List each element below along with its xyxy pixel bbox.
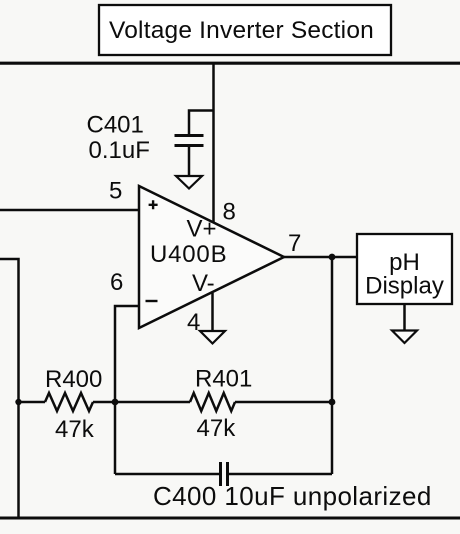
wire pin 8 supply drop	[212, 63, 215, 222]
svg-text:Display: Display	[365, 273, 444, 300]
title box: Voltage Inverter Section	[99, 5, 391, 55]
wire left input corner	[0, 259, 19, 518]
ground (pin 4)	[200, 331, 225, 344]
wire pH display ground lead	[403, 304, 406, 330]
ground (pH display)	[392, 331, 417, 344]
plus input mark	[149, 200, 158, 209]
op-amp U400B	[139, 186, 284, 328]
svg-text:U400B: U400B	[150, 241, 227, 268]
svg-text:6: 6	[110, 269, 123, 296]
svg-text:5: 5	[109, 178, 122, 205]
svg-text:47k: 47k	[55, 416, 95, 443]
minus input mark	[146, 300, 158, 302]
svg-text:0.1uF: 0.1uF	[89, 137, 150, 164]
svg-text:Voltage Inverter Section: Voltage Inverter Section	[109, 17, 374, 44]
svg-text:7: 7	[288, 230, 301, 257]
node left junction	[15, 399, 21, 405]
ground (C401)	[176, 176, 202, 189]
svg-text:C401: C401	[87, 112, 144, 139]
wire feedback vertical	[331, 257, 334, 474]
wire between R400 and R401	[93, 401, 190, 404]
wire C401 stub	[189, 111, 214, 135]
resistor R401	[190, 393, 235, 411]
svg-text:R400: R400	[45, 366, 102, 393]
svg-text:R401: R401	[195, 366, 252, 393]
wire R400 left lead	[19, 401, 46, 404]
svg-text:V-: V-	[192, 270, 215, 297]
capacitor C401	[175, 136, 204, 176]
node pin6 junction	[112, 399, 119, 406]
svg-text:4: 4	[187, 309, 200, 336]
svg-text:47k: 47k	[197, 415, 237, 442]
wire pin 6 input	[115, 306, 139, 474]
wire pin 5 input	[0, 209, 139, 212]
svg-text:C400 10uF unpolarized: C400 10uF unpolarized	[153, 481, 432, 511]
resistor R400	[45, 393, 93, 411]
wire C400 left lead	[115, 473, 220, 476]
wire output pin 7	[284, 256, 357, 259]
wire pin 4	[211, 293, 214, 331]
pH Display box	[357, 234, 452, 304]
wire top supply rail	[0, 62, 460, 65]
node output junction	[329, 254, 336, 261]
svg-text:8: 8	[223, 199, 236, 226]
svg-text:V+: V+	[187, 216, 217, 243]
wire bottom rail	[0, 516, 460, 519]
wire C400 right lead	[229, 473, 332, 476]
capacitor C400	[221, 462, 228, 486]
wire R401 right lead	[235, 401, 332, 404]
node feedback junction	[329, 399, 336, 406]
